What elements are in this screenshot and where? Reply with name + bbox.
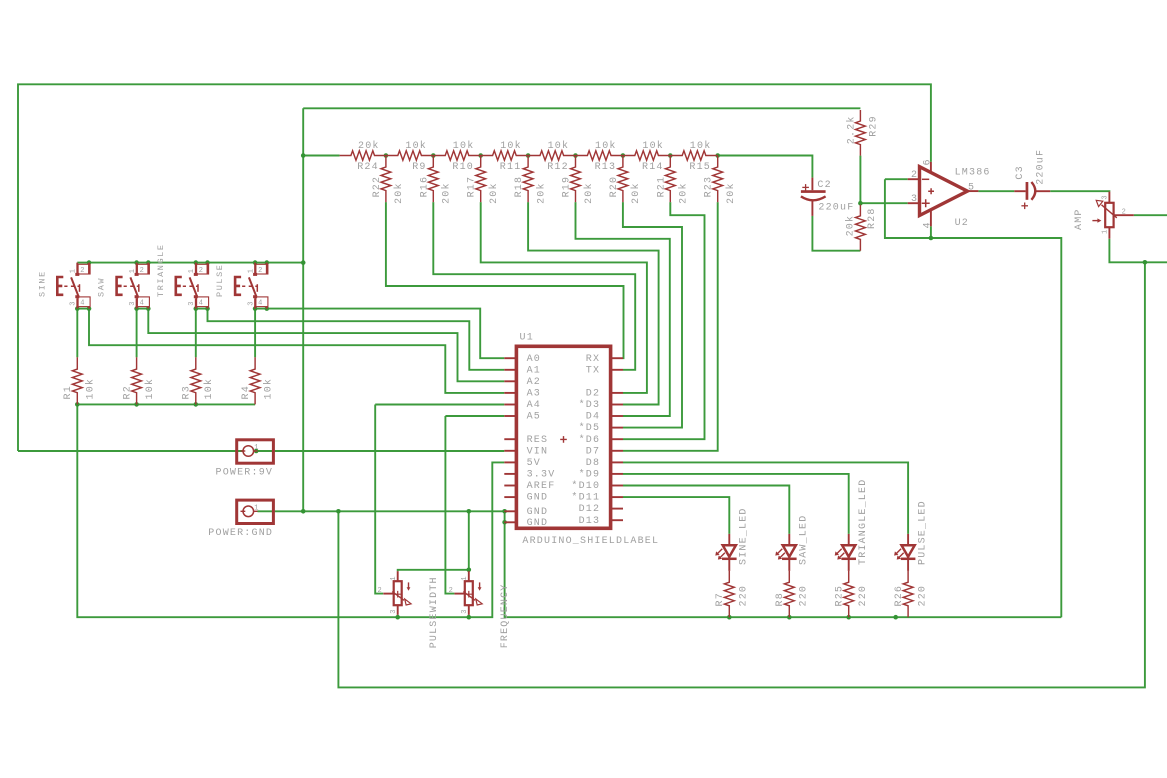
- junction GND run LED: [787, 615, 792, 620]
- svg-text:1: 1: [70, 268, 78, 273]
- label R15 name/value: [689, 140, 711, 173]
- label R12 name/value: [547, 140, 569, 173]
- svg-text:1: 1: [1101, 229, 1109, 234]
- svg-text:TRIANGLE_LED: TRIANGLE_LED: [858, 479, 869, 565]
- junction switch bottom rail: [205, 306, 210, 311]
- wire pot pin1 rail: [398, 570, 469, 571]
- IC U1 ARDUINO_SHIELDLABEL box: [516, 346, 610, 528]
- wire R29 bottom to node: [859, 156, 861, 204]
- junction resistor bottom rail: [134, 402, 139, 407]
- label R9 name/value: [405, 140, 427, 173]
- label R22 name/value: [372, 176, 405, 204]
- wire A4 pin: [375, 404, 504, 406]
- resistor R2: [132, 357, 142, 404]
- label FREQUENCY pin numbers: [449, 576, 469, 614]
- label R11 name/value: [500, 140, 522, 173]
- net D7 to ladder bit 8: [623, 202, 718, 451]
- junction POWER:9V pin: [254, 449, 259, 454]
- svg-text:A1: A1: [527, 365, 541, 376]
- net SINE to A3: [89, 309, 504, 393]
- net RX to ladder bit 1: [386, 202, 624, 358]
- svg-text:3: 3: [70, 301, 78, 306]
- wire PULSEWIDTH pin3 stub: [397, 615, 399, 617]
- svg-text:A3: A3: [527, 389, 541, 400]
- svg-text:5V: 5V: [527, 458, 541, 469]
- junction switch top rail: [194, 260, 199, 265]
- svg-text:20k: 20k: [535, 182, 547, 204]
- svg-text:2: 2: [449, 587, 454, 595]
- svg-text:R15: R15: [689, 162, 711, 173]
- resistor R4: [250, 357, 260, 404]
- svg-text:R17: R17: [467, 176, 478, 198]
- resistor R13: [576, 151, 623, 160]
- resistor R26: [903, 571, 913, 617]
- label R29 name/value: [846, 115, 880, 144]
- junction ladder node: [715, 153, 720, 158]
- junction ladder node: [431, 153, 436, 158]
- label R4 name/value: [241, 378, 275, 400]
- switch S3 pin numbers: [188, 267, 204, 308]
- capacitor C2: [801, 178, 826, 216]
- label U2 LM386: [955, 167, 991, 228]
- resistor R19: [571, 156, 581, 203]
- svg-text:4: 4: [199, 299, 204, 307]
- svg-text:A4: A4: [527, 400, 541, 411]
- label R3 name/value: [182, 378, 216, 400]
- svg-text:VIN: VIN: [527, 446, 549, 457]
- svg-text:D2: D2: [586, 389, 600, 400]
- switch S4 PULSE: [235, 263, 268, 309]
- svg-text:220uF: 220uF: [818, 203, 854, 214]
- svg-text:3: 3: [461, 609, 469, 614]
- resistor R11: [481, 151, 528, 160]
- wire op-amp pin2/pin4 loop to GND run: [885, 179, 1061, 617]
- svg-text:10k: 10k: [595, 140, 617, 152]
- label R13 name/value: [595, 140, 617, 173]
- svg-text:U2: U2: [955, 218, 969, 229]
- junction GND rail: [502, 520, 507, 525]
- svg-text:4: 4: [140, 299, 145, 307]
- wire node to op-amp pin3: [860, 202, 907, 204]
- svg-text:220: 220: [858, 585, 869, 607]
- svg-text:D12: D12: [579, 504, 601, 515]
- svg-text:GND: GND: [527, 493, 549, 504]
- wire C2 bottom to R28: [812, 216, 860, 251]
- net D3 to ladder bit 4: [528, 202, 659, 404]
- svg-text:2: 2: [80, 267, 85, 275]
- junction switch top rail: [253, 260, 258, 265]
- switch S1 SINE: [57, 263, 90, 309]
- svg-text:3: 3: [911, 194, 918, 205]
- wire FREQUENCY pin3 stub: [468, 615, 470, 617]
- svg-text:LM386: LM386: [955, 167, 991, 178]
- svg-text:10k: 10k: [642, 140, 664, 152]
- junction AMP pin1 net: [1143, 260, 1148, 265]
- wire A5 pin: [445, 415, 504, 417]
- svg-text:3: 3: [1101, 195, 1109, 200]
- net D5 to ladder bit 6: [623, 202, 682, 428]
- wire R1-R4 bottom rail: [77, 403, 255, 405]
- junction switch top rail: [87, 260, 92, 265]
- svg-text:*D9: *D9: [579, 469, 601, 481]
- label R25 name/value: [834, 585, 869, 607]
- junction ladder node: [301, 153, 306, 158]
- svg-text:2: 2: [140, 267, 145, 275]
- junction GND run LED: [727, 615, 732, 620]
- svg-text:R7: R7: [715, 592, 726, 606]
- resistor R24: [340, 151, 386, 160]
- svg-text:4: 4: [80, 299, 85, 307]
- label R26 name/value: [894, 585, 929, 607]
- resistor R3: [191, 357, 201, 404]
- label R28 name/value: [844, 207, 878, 236]
- svg-text:220: 220: [739, 585, 750, 607]
- junction switch top rail: [205, 260, 210, 265]
- net D8 to LED: [623, 462, 908, 534]
- svg-text:PULSE: PULSE: [215, 263, 225, 297]
- svg-text:*D6: *D6: [579, 434, 601, 446]
- junction ladder node: [668, 153, 673, 158]
- label R23 name/value: [704, 176, 737, 204]
- wire to op-amp pin2: [885, 178, 908, 180]
- svg-text:220uF: 220uF: [1036, 149, 1047, 185]
- svg-text:A2: A2: [527, 377, 541, 388]
- U1 right pin labels: [571, 354, 600, 527]
- svg-text:SINE: SINE: [37, 270, 47, 297]
- svg-text:3: 3: [390, 609, 398, 614]
- net TRIANGLE to A1: [208, 309, 505, 370]
- svg-text:220: 220: [917, 585, 928, 607]
- U1 right pin stubs: [611, 358, 623, 520]
- wire AMP pin1 to right edge: [1109, 239, 1167, 263]
- wire 9V to POWER:9V pin: [18, 450, 243, 452]
- label R7 name/value: [715, 585, 750, 607]
- svg-text:R1: R1: [63, 385, 74, 399]
- potentiometer FREQUENCY: [454, 571, 482, 615]
- junction pot pin1 rail: [467, 568, 472, 573]
- label R10 name/value: [452, 140, 474, 173]
- svg-text:ARDUINO_SHIELDLABEL: ARDUINO_SHIELDLABEL: [522, 536, 659, 547]
- svg-text:*D3: *D3: [579, 399, 601, 411]
- svg-text:C2: C2: [817, 180, 831, 191]
- svg-text:4: 4: [258, 299, 263, 307]
- LED SINE_LED: [715, 534, 736, 571]
- junction ladder node: [621, 153, 626, 158]
- svg-text:R28: R28: [867, 207, 878, 229]
- wire AMP pin1 loop to GND rail: [338, 262, 1145, 687]
- svg-text:20k: 20k: [725, 182, 737, 204]
- junction ladder node: [384, 153, 389, 158]
- svg-text:2: 2: [199, 267, 204, 275]
- resistor R16: [428, 156, 438, 203]
- svg-text:U1: U1: [520, 333, 534, 344]
- wire AMP pin2 to right edge: [1134, 214, 1167, 216]
- resistor R15: [670, 151, 717, 160]
- junction switch top rail: [265, 260, 270, 265]
- svg-text:TRIANGLE: TRIANGLE: [156, 243, 166, 297]
- wire switch 1 pin3 to resistor: [76, 309, 78, 358]
- svg-text:GND: GND: [527, 518, 549, 529]
- junction switch top rail: [301, 260, 306, 265]
- wire C3 to AMP pin3: [1050, 190, 1109, 192]
- junction switch bottom rail: [134, 306, 139, 311]
- label R21 name/value: [656, 176, 689, 204]
- svg-text:*D11: *D11: [571, 492, 600, 504]
- svg-text:R11: R11: [500, 162, 522, 173]
- junction resistor bottom rail: [75, 402, 80, 407]
- svg-text:SINE_LED: SINE_LED: [739, 507, 750, 565]
- LED TRIANGLE_LED: [835, 534, 856, 571]
- svg-text:D13: D13: [579, 516, 601, 527]
- svg-text:AMP: AMP: [1074, 208, 1085, 230]
- resistor R28: [856, 205, 866, 251]
- resistor R25: [844, 571, 854, 617]
- label R14 name/value: [642, 140, 664, 173]
- svg-text:2: 2: [1122, 209, 1127, 217]
- svg-text:2.2k: 2.2k: [846, 115, 858, 144]
- wire switch 1 bottom rail: [77, 308, 89, 310]
- junction switch bottom rail: [194, 306, 199, 311]
- junction ladder node: [526, 153, 531, 158]
- svg-text:1: 1: [461, 576, 469, 581]
- net A5 to FREQUENCY wiper: [445, 416, 454, 594]
- svg-text:FREQUENCY: FREQUENCY: [500, 583, 511, 648]
- resistor R7: [724, 571, 734, 617]
- svg-text:10k: 10k: [144, 378, 156, 400]
- junction op-amp pin4: [929, 236, 934, 241]
- junction switch bottom rail: [253, 306, 258, 311]
- svg-text:1: 1: [254, 505, 259, 513]
- net TX to ladder bit 2: [433, 202, 635, 370]
- switch S3 TRIANGLE: [176, 263, 209, 309]
- svg-text:TX: TX: [586, 365, 600, 376]
- junction GND rail: [467, 509, 472, 514]
- LED PULSE_LED: [894, 534, 915, 571]
- junction resistor bottom rail: [194, 402, 199, 407]
- svg-text:R22: R22: [372, 176, 383, 198]
- switch S4 pin numbers: [248, 267, 264, 308]
- svg-text:RES: RES: [527, 435, 549, 446]
- svg-text:10k: 10k: [203, 378, 215, 400]
- svg-text:R9: R9: [412, 162, 426, 173]
- svg-text:10k: 10k: [453, 140, 475, 152]
- junction GND rail: [336, 509, 341, 514]
- svg-text:10k: 10k: [548, 140, 570, 152]
- svg-text:20k: 20k: [678, 182, 690, 204]
- svg-text:R16: R16: [419, 176, 430, 198]
- net D6 to ladder bit 7: [623, 202, 705, 439]
- wire 9V border top-left to op-amp pin6: [18, 84, 931, 451]
- svg-text:20k: 20k: [630, 182, 642, 204]
- junction switch top rail: [146, 260, 151, 265]
- svg-text:20k: 20k: [488, 182, 500, 204]
- resistor R10: [433, 151, 480, 160]
- resistor R21: [665, 156, 675, 203]
- svg-text:R19: R19: [562, 176, 573, 198]
- LED SAW_LED: [775, 534, 796, 571]
- junction ladder node: [573, 153, 578, 158]
- svg-text:A0: A0: [527, 354, 541, 365]
- label PULSEWIDTH pin numbers: [378, 576, 398, 614]
- wire switch 2 bottom rail: [137, 308, 149, 310]
- net D10 to LED: [623, 486, 789, 534]
- svg-text:C3: C3: [1015, 165, 1026, 179]
- label U2 pin numbers: [911, 158, 975, 228]
- wire GND run U1 GND to LEDs: [505, 522, 1062, 617]
- resistor R17: [476, 156, 486, 203]
- svg-text:1: 1: [248, 268, 256, 273]
- resistor R12: [528, 151, 575, 160]
- U1 internal plus mark: [560, 436, 567, 443]
- junction GND rail: [502, 509, 507, 514]
- wire pot pin1 to GND rail: [468, 511, 470, 571]
- svg-text:R4: R4: [241, 385, 252, 399]
- label R1 name/value: [63, 378, 97, 400]
- svg-text:3: 3: [188, 301, 196, 306]
- junction R29/R28/pin3 node: [858, 201, 863, 206]
- svg-text:R14: R14: [642, 162, 664, 173]
- svg-text:10k: 10k: [690, 140, 712, 152]
- svg-text:R23: R23: [704, 176, 715, 198]
- svg-text:R21: R21: [656, 176, 667, 198]
- resistor R23: [713, 156, 723, 203]
- svg-text:3: 3: [248, 301, 256, 306]
- svg-text:20k: 20k: [844, 215, 856, 237]
- net D9 to LED: [623, 474, 849, 534]
- svg-text:R12: R12: [547, 162, 569, 173]
- svg-text:3: 3: [129, 301, 137, 306]
- label R17 name/value: [467, 176, 500, 204]
- svg-text:R18: R18: [514, 176, 525, 198]
- svg-text:10k: 10k: [85, 378, 97, 400]
- resistor R14: [623, 151, 670, 160]
- svg-text:2: 2: [258, 267, 263, 275]
- junction ladder node: [478, 153, 483, 158]
- svg-text:220: 220: [799, 585, 810, 607]
- svg-text:20k: 20k: [583, 182, 595, 204]
- label R24 name/value: [357, 140, 379, 173]
- svg-text:20k: 20k: [358, 140, 380, 152]
- svg-text:R3: R3: [182, 385, 193, 399]
- resistor R29: [856, 110, 866, 156]
- wire GND2 to GND3: [504, 511, 506, 522]
- svg-text:4: 4: [923, 221, 934, 228]
- svg-text:RX: RX: [586, 354, 600, 365]
- connector POWER:GND: [237, 500, 274, 523]
- potentiometer PULSEWIDTH: [383, 571, 411, 615]
- svg-text:AREF: AREF: [527, 481, 556, 492]
- wire ladder left lead: [303, 155, 339, 157]
- label R2 name/value: [122, 378, 156, 400]
- label AMP pin numbers: [1101, 195, 1126, 234]
- svg-text:R29: R29: [869, 115, 880, 137]
- label C3 name/value: [1015, 149, 1047, 185]
- switch S1 pin numbers: [70, 267, 86, 308]
- junction switch bottom rail: [75, 306, 80, 311]
- wire switch top rail: [77, 262, 303, 264]
- svg-text:3.3V: 3.3V: [527, 470, 556, 481]
- wire switch 3 pin3 to resistor: [195, 309, 197, 358]
- wire switch 3 bottom rail: [196, 308, 208, 310]
- junction GND run LED: [893, 615, 898, 620]
- svg-text:D8: D8: [586, 458, 600, 469]
- svg-text:1: 1: [188, 268, 196, 273]
- svg-text:R8: R8: [775, 592, 786, 606]
- svg-text:SAW: SAW: [97, 277, 107, 297]
- svg-text:1: 1: [390, 576, 398, 581]
- svg-text:1: 1: [129, 268, 137, 273]
- resistor R20: [618, 156, 628, 203]
- svg-text:R10: R10: [452, 162, 474, 173]
- wire GND rail POWER:GND to U1 GND pin: [258, 510, 505, 512]
- junction switch bottom rail: [87, 306, 92, 311]
- svg-text:2: 2: [378, 587, 383, 595]
- svg-text:1: 1: [254, 444, 259, 452]
- wire 5V net rail to 5V pin: [77, 404, 504, 617]
- switch S2 pin numbers: [129, 267, 145, 308]
- switch S2 SAW: [117, 263, 150, 309]
- svg-text:10k: 10k: [500, 140, 522, 152]
- wire ladder output to C2: [718, 156, 813, 178]
- svg-text:POWER:GND: POWER:GND: [208, 528, 273, 539]
- connector POWER:9V: [237, 440, 274, 463]
- resistor R8: [784, 571, 794, 617]
- svg-text:GND: GND: [527, 507, 549, 518]
- svg-text:2: 2: [911, 170, 918, 181]
- svg-text:20k: 20k: [441, 182, 453, 204]
- resistor R9: [386, 151, 433, 160]
- net D2 to ladder bit 3: [481, 202, 647, 393]
- svg-text:PULSEWIDTH: PULSEWIDTH: [429, 576, 440, 648]
- svg-text:*D5: *D5: [579, 422, 601, 434]
- svg-text:D7: D7: [586, 446, 600, 457]
- potentiometer AMP: [1092, 192, 1133, 239]
- net PULSE to A0: [267, 309, 505, 359]
- junction GND run LED: [846, 615, 851, 620]
- label R18 name/value: [514, 176, 547, 204]
- U1 left pin stubs: [504, 358, 516, 522]
- label R20 name/value: [609, 176, 642, 204]
- junction FREQUENCY pin3: [467, 615, 472, 620]
- net SAW to A2: [148, 309, 504, 382]
- label R8 name/value: [775, 585, 810, 607]
- op-amp U2 LM386: [908, 162, 979, 226]
- svg-text:5: 5: [968, 182, 975, 193]
- junction switch top rail: [134, 260, 139, 265]
- svg-text:PULSE_LED: PULSE_LED: [918, 500, 929, 565]
- net A4 to PULSEWIDTH wiper: [375, 405, 383, 594]
- svg-text:D4: D4: [586, 412, 600, 423]
- wire switch 4 pin3 to resistor: [254, 309, 256, 358]
- resistor R22: [381, 156, 391, 203]
- svg-text:10k: 10k: [405, 140, 427, 152]
- junction GND rail: [301, 509, 306, 514]
- resistor R1: [72, 357, 82, 404]
- svg-text:SAW_LED: SAW_LED: [799, 515, 810, 565]
- junction PULSEWIDTH pin3: [395, 615, 400, 620]
- svg-text:R13: R13: [595, 162, 617, 173]
- svg-text:R2: R2: [122, 385, 133, 399]
- svg-text:20k: 20k: [393, 182, 405, 204]
- svg-text:R20: R20: [609, 176, 620, 198]
- wire vertical ladder-left to GND rail: [302, 108, 304, 511]
- wire switch 2 pin3 to resistor: [136, 309, 138, 358]
- wire 9V POWER:9V to VIN: [256, 450, 504, 452]
- svg-text:R25: R25: [834, 585, 845, 607]
- label R19 name/value: [562, 176, 595, 204]
- wire switch 4 bottom rail: [255, 308, 267, 310]
- net D11 to LED: [623, 497, 729, 534]
